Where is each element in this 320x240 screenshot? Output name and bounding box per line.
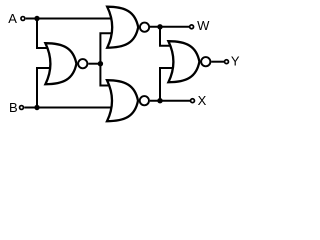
terminal B <box>20 106 24 110</box>
junction on W wire <box>157 24 162 29</box>
junction on B wire <box>34 105 39 110</box>
svg-text:X: X <box>198 93 207 108</box>
NOR gate U2 <box>107 7 149 48</box>
NOR gate U4 <box>168 41 210 82</box>
wire mid vertical with stubs to U2 and U3 <box>100 33 113 85</box>
junction on X wire <box>157 98 162 103</box>
wire X branch up to U4 <box>160 68 176 101</box>
wire A branch down to U1 <box>37 19 52 49</box>
wire X <box>150 100 190 102</box>
wire A horizontal <box>26 18 113 20</box>
terminal X <box>191 99 195 103</box>
terminal A <box>21 17 25 21</box>
junction U1 output <box>98 61 103 66</box>
terminal Y <box>225 60 229 64</box>
svg-text:B: B <box>9 100 18 115</box>
svg-text:Y: Y <box>231 53 240 68</box>
svg-text:W: W <box>197 18 210 33</box>
junction on A wire <box>34 16 39 21</box>
NOR gate U3 <box>107 80 149 121</box>
NOR gate U1 <box>45 43 87 84</box>
wire U1 output <box>88 63 100 65</box>
wire W <box>150 26 189 28</box>
wire B branch up to U1 <box>37 68 53 108</box>
svg-text:A: A <box>8 11 17 26</box>
terminal W <box>190 25 194 29</box>
wire Y <box>211 61 224 63</box>
wire B horizontal <box>24 107 113 109</box>
wire W branch down to U4 <box>160 27 176 46</box>
